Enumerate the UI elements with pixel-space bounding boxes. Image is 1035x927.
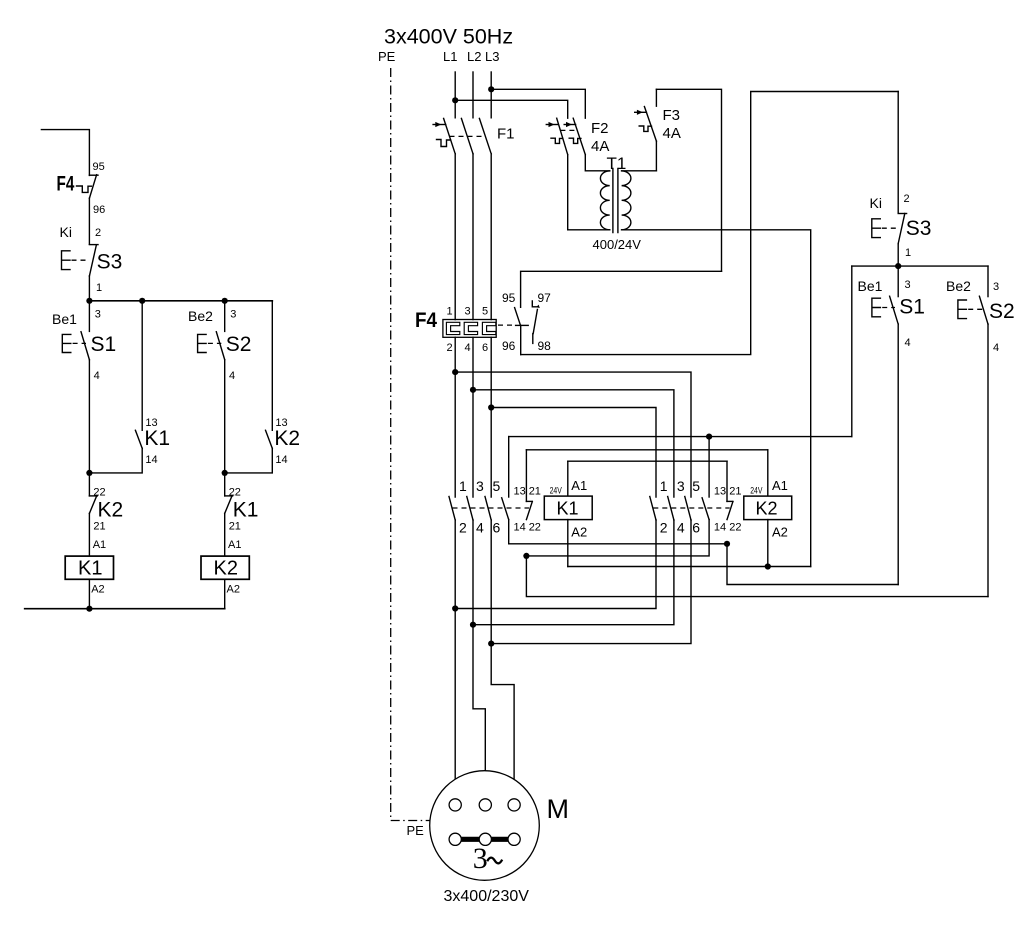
junction K2-13 tap [706,434,712,440]
wire coil K1 to bottom bus [88,579,90,608]
wire L3 tap to F2 [491,89,585,118]
svg-text:4: 4 [94,370,100,382]
junction [86,298,92,304]
wire S2 down to node [224,360,226,473]
wire bus to hold rail [851,266,853,437]
junction on K2-22 [724,541,730,547]
svg-text:Be1: Be1 [52,311,77,327]
svg-text:97: 97 [538,291,552,305]
wire K2 pole6 return to phase3 [491,520,691,644]
svg-text:L2: L2 [467,49,481,64]
wire to coil K1 [88,513,90,556]
trip contact 97-98 spare [532,301,540,344]
svg-text:4: 4 [229,370,235,382]
svg-text:A1: A1 [772,478,788,493]
wire K2 pole2 return to phase1 [455,520,656,609]
svg-text:4A: 4A [663,125,681,142]
svg-text:A1: A1 [228,539,241,551]
wire F2 pole1 to T1 primary bottom [568,155,610,230]
svg-text:1: 1 [905,247,911,259]
pushbutton S1 [872,266,898,324]
svg-text:F2: F2 [591,120,609,137]
svg-text:3x400V 50Hz: 3x400V 50Hz [384,25,513,49]
svg-text:4: 4 [905,337,911,349]
wire phase1 F4 to K1 [454,337,456,497]
svg-text:96: 96 [502,339,516,353]
wire F1 pole2 down to F4 [472,154,474,320]
svg-text:Be2: Be2 [188,308,213,324]
wire K1 coil A2 [567,520,569,567]
svg-text:A2: A2 [772,525,788,540]
svg-text:95: 95 [502,291,516,305]
svg-text:F4: F4 [415,309,437,332]
svg-text:4: 4 [993,342,999,354]
wire phase1 to motor [454,609,456,800]
svg-text:21: 21 [529,485,541,497]
svg-text:F4: F4 [57,173,75,196]
wire phase1 cross to K2 pole5 [455,372,691,497]
svg-text:Be1: Be1 [858,278,883,294]
breaker F1 3-pole [433,118,491,153]
wire hold rail to K1-13 [509,436,852,438]
overload aux contact F4 95-96 [77,175,99,199]
SECTION: middle [415,92,988,647]
wire K1 pole2 down [454,520,456,609]
svg-text:14: 14 [514,522,526,534]
svg-text:K1: K1 [144,427,170,450]
NC interlock contact K1 21-22 [225,473,233,514]
coil K1 [65,556,113,579]
wire F2 pole2 to T1 primary top [585,155,609,171]
junction phase1 tap [452,369,458,375]
breaker F3 1-pole [635,89,657,171]
wire K1 pole6 down [490,520,492,644]
mechanical link F4 to trip contacts [498,324,515,326]
motor terminal U1 [449,799,461,811]
svg-text:3: 3 [465,306,471,318]
wire K2-22 to S1 [727,544,898,585]
wire T1 secondary top to F3 [622,170,657,172]
wire S2 down [987,324,989,596]
SECTION: motor [407,609,570,906]
wire T1 secondary bottom to A2 rail [622,230,811,567]
svg-text:21: 21 [229,521,241,533]
svg-text:Ki: Ki [870,195,882,211]
svg-text:13: 13 [714,485,726,497]
wire F4 to S3 [88,198,90,244]
switch S3 key-operated [872,214,907,244]
svg-text:22: 22 [729,522,741,534]
svg-text:6: 6 [482,342,488,354]
wire rail to contact 95 [521,271,722,307]
wire phase2 to K2 pole3 [473,390,674,497]
svg-text:14: 14 [275,454,287,466]
wire phase2 F4 to K1 [472,337,474,497]
wire K1-22 to S2 [526,556,988,597]
wire K2-14 to start node [526,520,709,556]
wire K2 coil A2 [767,520,769,567]
junction phase2 tap [470,387,476,393]
SECTION: top power [378,25,811,821]
star bridge bar [455,837,514,842]
svg-text:5: 5 [482,306,488,318]
coil K2 [744,450,792,520]
transformer T1 primary winding [600,171,609,230]
svg-text:L1: L1 [443,49,457,64]
svg-text:3: 3 [473,842,488,875]
wire top-left supply [41,130,89,176]
svg-text:14: 14 [145,454,157,466]
svg-text:K2: K2 [214,558,238,580]
junction [139,298,145,304]
transformer T1 secondary winding [622,171,631,230]
svg-text:S1: S1 [899,296,925,319]
svg-text:24V: 24V [550,486,563,497]
svg-text:K2: K2 [274,427,300,450]
motor M body [430,771,540,881]
junction phase3 tap [488,404,494,410]
svg-text:A2: A2 [91,584,104,596]
svg-text:13: 13 [514,485,526,497]
svg-text:4: 4 [465,342,471,354]
svg-text:3: 3 [677,478,685,494]
svg-text:1: 1 [660,478,668,494]
junction [222,470,228,476]
svg-text:2: 2 [459,520,467,536]
wire control bus [89,300,272,302]
wire phase L2 [472,72,474,118]
svg-text:22: 22 [229,487,241,499]
aux contact K1 13-14 [502,437,509,520]
svg-text:3: 3 [476,478,484,494]
wire supply to S3 [897,92,899,214]
svg-text:3x400/230V: 3x400/230V [444,888,530,905]
svg-text:F1: F1 [497,126,515,143]
motor terminal U2 [479,833,491,845]
junction L1 tap [452,97,458,103]
svg-text:L3: L3 [485,49,499,64]
aux contact K2 13-14 [225,301,273,473]
svg-text:22: 22 [93,487,105,499]
wire L1 tap to F2 [455,100,568,118]
svg-text:5: 5 [692,478,700,494]
svg-text:1: 1 [459,478,467,494]
svg-text:6: 6 [692,520,700,536]
wire F1 pole1 down to F4 [454,154,456,320]
svg-text:4: 4 [677,520,685,536]
wire K1-14 to start node [509,520,727,544]
svg-text:Be2: Be2 [946,278,971,294]
svg-text:S3: S3 [906,217,932,240]
motor terminal W1 [508,799,520,811]
wire K1-21 to K2 coil A1 [526,449,767,451]
svg-text:14: 14 [714,522,726,534]
junction phase3 motor tap [488,641,494,647]
svg-text:K2: K2 [756,498,778,518]
contactor K1 main contacts [449,497,529,521]
svg-text:6: 6 [493,520,501,536]
svg-text:1: 1 [447,306,453,318]
svg-text:24V: 24V [750,486,763,497]
svg-text:3: 3 [905,279,911,291]
svg-text:K1: K1 [233,499,259,522]
SECTION: left control ladder [25,130,300,612]
svg-text:A2: A2 [227,584,240,596]
svg-text:Ki: Ki [60,224,72,240]
svg-text:A1: A1 [571,478,587,493]
wire F1 pole3 down to F4 [490,154,492,320]
junction [86,606,92,612]
wire K1 pole4 down [472,520,474,625]
wire phase L3 [490,72,492,118]
svg-text:K1: K1 [78,558,102,580]
wire phase2 to motor [473,625,485,800]
svg-text:M: M [547,794,570,824]
coil K1 [544,461,592,519]
label 3~ [473,842,502,875]
pushbutton S2 [958,266,988,324]
transformer T1 core [613,169,618,233]
svg-text:S2: S2 [989,300,1015,323]
wire K1 coil A1 to K2-21 [568,460,727,462]
pushbutton S1 [62,301,89,360]
wire control bus [852,265,988,267]
wire S1 down [897,324,899,584]
svg-text:22: 22 [529,522,541,534]
NC interlock contact K2 21-22 [89,473,97,514]
svg-text:400/24V: 400/24V [593,237,642,252]
svg-text:2: 2 [904,193,910,205]
svg-text:1: 1 [96,282,102,294]
aux contact K2 13-14 [702,437,709,520]
motor terminal V1 [479,799,491,811]
wire PE dash-dot conductor [391,68,430,821]
wire S3 to control bus [897,244,899,267]
junction [86,470,92,476]
wire phase3 to motor [491,644,514,800]
aux contact K2 21-22 [727,461,733,519]
pushbutton S2 [198,301,225,360]
junction phase1 motor tap [452,605,458,611]
svg-text:3: 3 [95,309,101,321]
junction L3 tap [488,86,494,92]
wire to coil K2 [224,513,226,556]
junction phase2 motor tap [470,622,476,628]
svg-text:95: 95 [93,161,105,173]
aux contact K1 13-14 [89,301,142,473]
overload relay F4 heater block [443,320,496,338]
svg-text:S3: S3 [97,251,123,274]
svg-text:4: 4 [476,520,484,536]
wire bottom return bus [25,608,225,610]
coil K2 [201,556,249,579]
SECTION: right control [852,92,1015,597]
svg-text:4A: 4A [591,138,609,155]
wire phase L1 [454,72,456,118]
svg-text:F3: F3 [663,107,681,124]
junction [895,263,901,269]
svg-text:PE: PE [378,49,396,64]
wire S3 to bus [88,276,90,301]
svg-text:21: 21 [729,485,741,497]
svg-text:3: 3 [993,281,999,293]
svg-text:21: 21 [93,521,105,533]
svg-text:3: 3 [230,309,236,321]
breaker F2 2-pole [546,118,585,154]
wire coil return rail [568,566,811,568]
svg-text:96: 96 [93,204,105,216]
junction on K1-22 [523,553,529,559]
svg-text:S2: S2 [226,333,252,356]
svg-text:2: 2 [95,227,101,239]
svg-text:98: 98 [538,339,552,353]
svg-text:2: 2 [447,342,453,354]
wire coil K2 to bottom bus [224,579,226,608]
trip contact 95-96 [515,308,529,355]
svg-text:K2: K2 [98,499,124,522]
wire F3 top rail [656,89,721,271]
junction [222,298,228,304]
wire phase3 cross to K2 pole1 [491,408,656,498]
wire S1 down to node [88,360,90,473]
junction K2-A2 [765,563,771,569]
contactor K2 main contacts [650,497,730,521]
motor terminal V2 [508,833,520,845]
wire K2 pole4 return to phase2 [473,520,674,625]
svg-text:A2: A2 [571,525,587,540]
svg-text:S1: S1 [91,333,117,356]
svg-text:2: 2 [660,520,668,536]
svg-text:K1: K1 [557,498,579,518]
aux contact K1 21-22 [526,450,532,520]
svg-text:5: 5 [493,478,501,494]
switch S3 key-operated [62,245,99,276]
svg-text:A1: A1 [93,539,106,551]
wire phase3 F4 to K1 [490,337,492,497]
svg-text:PE: PE [407,823,425,838]
motor terminal W2 [449,833,461,845]
wire 96 to S3 supply rail [521,92,899,355]
